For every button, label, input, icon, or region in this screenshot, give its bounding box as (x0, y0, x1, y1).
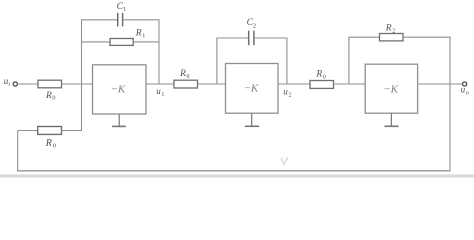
output terminal u_o (461, 82, 469, 97)
svg-text:1: 1 (161, 92, 164, 98)
svg-text:1: 1 (123, 6, 126, 13)
svg-text:0: 0 (323, 74, 326, 81)
ground (U3) (385, 113, 399, 126)
svg-text:R: R (135, 28, 142, 38)
input terminal u_i (4, 76, 18, 88)
wire: amplifier 2 output (278, 83, 310, 85)
op-amp U2 (inverting block -K) (226, 64, 279, 114)
node u2 (feedback tap, stage 2) (283, 38, 291, 99)
wire: R0 to amplifier 3 input (334, 83, 366, 85)
wire: bottom rail riser (left) (17, 131, 19, 172)
svg-text:R: R (385, 23, 392, 33)
svg-text:0: 0 (52, 95, 55, 102)
svg-text:R: R (179, 69, 186, 79)
svg-text:1: 1 (142, 32, 145, 39)
svg-text:R: R (45, 138, 52, 149)
resistor R0 (series, stage 3) (310, 70, 334, 89)
svg-text:2: 2 (392, 27, 395, 34)
wire: bottom feedback rail (17, 170, 450, 172)
svg-text:R: R (315, 70, 322, 80)
svg-text:0: 0 (53, 143, 56, 150)
capacitor C2 (feedback, stage 2) (216, 18, 287, 45)
resistor R0 (overall feedback, bottom) (18, 127, 82, 150)
node u1 (feedback tap, stage 1) (156, 20, 164, 98)
svg-text:−K: −K (244, 83, 259, 95)
svg-text:R: R (45, 91, 52, 101)
node: summing junction 1 (vertical bus) (81, 20, 83, 131)
node: summing junction 2 (216, 38, 218, 84)
wire: output feedback drop (node u_o to bottom rail) (449, 37, 451, 171)
svg-text:0: 0 (186, 73, 189, 80)
wire: R0 to amplifier 2 input (198, 83, 226, 85)
svg-text:−K: −K (383, 83, 398, 95)
wire: input terminal to R0 (18, 83, 39, 85)
ground (U1) (112, 114, 126, 126)
op-amp U1 (inverting block -K) (93, 65, 147, 114)
wire: amplifier 3 output (418, 83, 463, 85)
resistor R1 (feedback, stage 1) (81, 28, 160, 45)
ground (U2) (245, 113, 259, 126)
svg-text:−K: −K (111, 83, 126, 95)
svg-text:o: o (466, 91, 469, 97)
resistor R2 (feedback, stage 3) (348, 23, 450, 41)
op-amp U3 (inverting block -K) (365, 64, 417, 113)
node: summing junction 3 (348, 37, 350, 84)
capacitor C1 (feedback, stage 1) (81, 2, 160, 27)
resistor R0 (input, series) (38, 80, 62, 101)
wire: R0 to amplifier 1 input (62, 83, 93, 85)
wire: amplifier 1 output (146, 83, 174, 85)
resistor R0 (series, stage 2) (174, 69, 198, 88)
svg-text:2: 2 (253, 22, 256, 29)
svg-text:2: 2 (288, 93, 291, 99)
